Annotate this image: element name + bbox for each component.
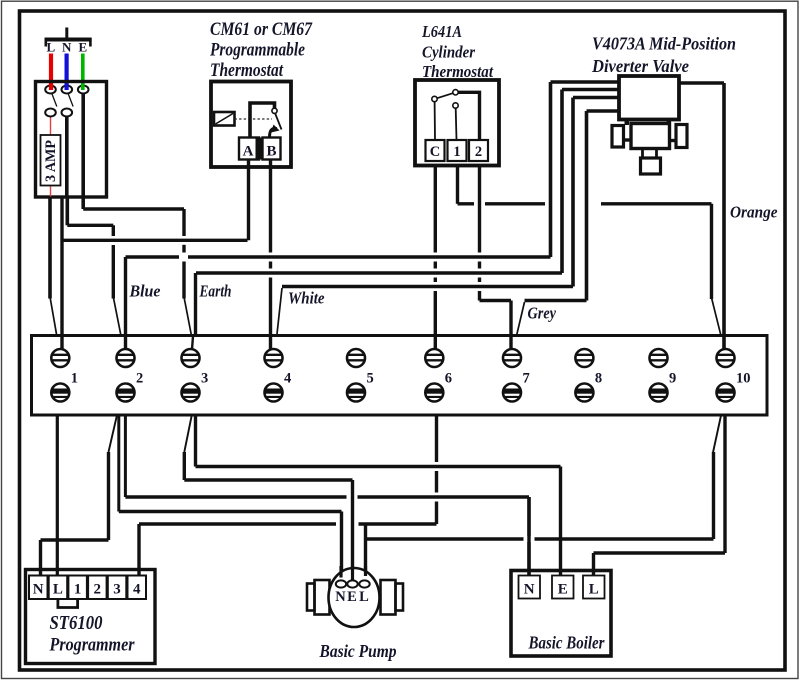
svg-text:CM61 or CM67: CM61 or CM67 [210, 20, 313, 40]
svg-text:L: L [47, 40, 56, 55]
svg-text:3 AMP: 3 AMP [43, 140, 59, 182]
svg-text:Basic Boiler: Basic Boiler [528, 633, 605, 653]
svg-text:L: L [53, 582, 63, 598]
svg-text:Cylinder: Cylinder [422, 43, 475, 62]
svg-text:2: 2 [475, 144, 482, 160]
svg-text:E: E [347, 589, 357, 605]
svg-text:L641A: L641A [421, 22, 462, 41]
svg-text:Orange: Orange [730, 203, 778, 222]
svg-text:2: 2 [94, 582, 102, 598]
svg-text:N: N [62, 40, 72, 55]
svg-text:A: A [243, 144, 254, 160]
svg-text:1: 1 [74, 582, 82, 598]
svg-text:6: 6 [445, 371, 452, 387]
svg-text:C: C [430, 144, 440, 160]
svg-text:7: 7 [523, 371, 530, 387]
svg-text:9: 9 [669, 371, 676, 387]
svg-text:E: E [79, 40, 88, 55]
svg-text:ST6100: ST6100 [50, 612, 103, 634]
svg-text:Grey: Grey [528, 304, 557, 323]
svg-text:2: 2 [136, 371, 143, 387]
svg-text:5: 5 [367, 371, 374, 387]
svg-text:N: N [524, 582, 535, 598]
svg-text:4: 4 [284, 371, 291, 387]
svg-text:Blue: Blue [129, 282, 161, 301]
svg-text:V4073A Mid-Position: V4073A Mid-Position [592, 34, 736, 54]
svg-text:4: 4 [133, 582, 141, 598]
svg-text:Programmer: Programmer [49, 635, 135, 656]
svg-text:10: 10 [736, 371, 751, 387]
svg-text:1: 1 [71, 371, 78, 387]
svg-text:Thermostat: Thermostat [422, 62, 494, 81]
svg-text:B: B [266, 144, 276, 160]
svg-text:L: L [589, 582, 599, 598]
svg-text:Diverter Valve: Diverter Valve [591, 56, 689, 76]
svg-text:N: N [335, 589, 346, 605]
svg-text:1: 1 [453, 144, 460, 160]
svg-text:8: 8 [595, 371, 602, 387]
svg-text:E: E [558, 582, 568, 598]
svg-text:Programmable: Programmable [209, 41, 305, 61]
svg-text:3: 3 [113, 582, 121, 598]
svg-text:N: N [33, 582, 44, 598]
svg-text:Thermostat: Thermostat [210, 61, 284, 81]
svg-text:L: L [359, 589, 369, 605]
svg-text:Basic Pump: Basic Pump [319, 641, 397, 661]
svg-text:Earth: Earth [199, 282, 232, 301]
svg-text:3: 3 [201, 371, 208, 387]
svg-text:White: White [288, 289, 325, 308]
